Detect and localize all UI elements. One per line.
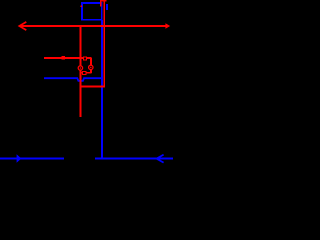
wire (red vertical right, alongside blue) <box>103 0 105 87</box>
node (junction dot on B) <box>62 56 65 59</box>
node (tiny red dot at box left edge) <box>81 6 82 7</box>
component loop bottom edge <box>81 72 92 74</box>
arrow (top-right, pointing right) <box>165 23 170 29</box>
wire (red horizontal lower, y=86.5) <box>80 86 105 88</box>
terminal square (top, on B) <box>83 57 86 60</box>
arrow (bottom-right, pointing left) <box>157 155 164 163</box>
wire (blue bus, middle horizontal with hop over red wire) <box>44 78 101 81</box>
wire (blue vertical from box bottom-right to bottom rail) <box>101 20 103 159</box>
wire (red horizontal B at y=58) <box>44 57 92 59</box>
meter M2 (right circle with center dot) <box>89 65 93 69</box>
wire (bottom-left blue rail) <box>0 158 64 160</box>
component loop right edge <box>90 58 92 73</box>
wire (main top red line) <box>20 25 167 27</box>
arrow (top-left, swept, pointing left) <box>19 22 26 30</box>
wire (bottom-right blue rail) <box>95 158 173 160</box>
terminal square (bottom) <box>83 71 86 74</box>
component U1 (top box, blue) <box>82 2 102 20</box>
wire (red hook from box top to vertical drop) <box>101 1 107 7</box>
arrow (bottom-left, pointing right) <box>17 154 22 163</box>
wire (red vertical A from top line down through component to dead end) <box>80 26 82 117</box>
terminal stub (small blue tick right of box) <box>106 4 108 10</box>
meter M1 (left circle with center dot) <box>78 66 82 70</box>
